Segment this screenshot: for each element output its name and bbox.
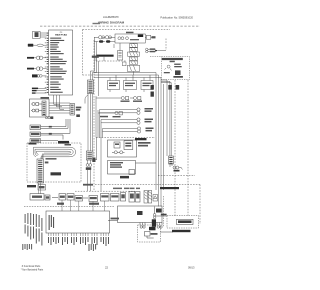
right connector K1: [169, 156, 174, 164]
dispenser door label: [51, 172, 62, 175]
dispenser door dashed line: [24, 206, 114, 208]
lower wire stub 1: [32, 88, 38, 90]
legend pin rows: [50, 38, 66, 93]
connector J3: [70, 104, 75, 116]
harness connector J2: [88, 80, 94, 94]
wire to ground block: [158, 50, 166, 52]
FF bus drop verticals: [96, 98, 103, 138]
door harness connector: [86, 151, 93, 160]
svg-text:WIRING DIAGRAM: WIRING DIAGRAM: [98, 21, 125, 25]
housing wire stub 2: [27, 68, 34, 70]
legend pin tick marks: [47, 33, 49, 93]
cabinet inner dashed wall: [93, 40, 95, 190]
water heater label: [151, 233, 158, 235]
cutoff switch label: [31, 139, 40, 141]
compressor plug wires row 1: [94, 36, 115, 42]
ice room label: [41, 97, 50, 99]
FF section title row 2: [110, 164, 121, 165]
freezer fan dashed box: [167, 216, 199, 229]
ice room box: [30, 99, 50, 117]
power cord plug: [28, 44, 34, 47]
svg-text:09/13: 09/13: [188, 266, 195, 270]
dispenser top hatched connector 1: [144, 191, 158, 204]
dashed drop right of dispenser: [163, 196, 165, 227]
FF section bottom label: [120, 176, 129, 179]
line filter body: [35, 32, 39, 37]
strip side text: [46, 158, 57, 160]
right bus corner turns under ground box: [161, 80, 171, 156]
wire label mid: [76, 114, 80, 117]
ice room bottom cluster blob: [50, 116, 53, 119]
grounding diagram box: [150, 57, 190, 80]
machine dashed line mini box: [123, 62, 127, 66]
connector pair 2 wires: [34, 68, 47, 70]
ground lug blob: [32, 74, 38, 77]
plug wires row 2: [94, 41, 115, 43]
lower stub wires: [36, 88, 47, 93]
freezer fan inner label: [178, 220, 192, 223]
svg-text:* Non-Illustrated Parts: * Non-Illustrated Parts: [21, 268, 44, 271]
grounding diagram title: [162, 58, 183, 60]
auger motor row: [30, 119, 68, 130]
right bus long verticals: [156, 73, 164, 207]
wires boxes to bus: [110, 75, 150, 92]
cutoff switch row: [30, 139, 58, 143]
freezer dashed divider right: [158, 175, 195, 177]
relay cluster labels: [150, 48, 156, 50]
FF thermistor 2: [134, 97, 137, 100]
freezer fan bottom label: [172, 230, 191, 232]
cabinet left dashed wall: [82, 30, 84, 76]
svg-text:Publication No. 5995591020: Publication No. 5995591020: [160, 15, 193, 19]
fold cut line: [40, 25, 200, 27]
svg-text:LGHB2869TF: LGHB2869TF: [103, 15, 119, 19]
power cord wire: [33, 44, 46, 46]
buzzer box with hat: [153, 195, 158, 202]
right dashed wall top segment: [165, 39, 167, 51]
ice maker labels: [115, 142, 151, 147]
door strip drop wires: [38, 183, 40, 194]
door box corner label: [29, 143, 37, 145]
air damper: [137, 118, 140, 121]
plug pair circles row 1: [99, 36, 102, 39]
wires filter to board: [40, 33, 46, 37]
door heater note: [27, 185, 36, 187]
ice room bottom cluster circles: [45, 116, 47, 118]
bottom row right label: [160, 187, 179, 189]
line filter box: [33, 31, 47, 38]
ice maker title label: [135, 138, 147, 140]
terminal board box: [145, 35, 153, 39]
machine compartment component box 1: [108, 75, 154, 92]
strip side text 2: [45, 162, 49, 164]
machine compartment dashed line: [96, 60, 126, 62]
right dashed wall x188: [187, 80, 189, 216]
bus wires legend-to-cabinet: [91, 37, 99, 96]
FF wall drop wires lower: [97, 138, 102, 192]
condenser fan wire: [96, 56, 104, 61]
main PCBA legend box: [49, 30, 73, 95]
door harness plug cluster: [86, 164, 89, 167]
ice maker box: [108, 140, 137, 157]
water valve label dark: [58, 141, 69, 144]
bus corner drop wires: [91, 37, 97, 80]
component box 2: [124, 81, 137, 90]
bus wire label: [92, 56, 99, 58]
plug dark pair row 2a: [99, 40, 103, 43]
plug dark pair row 2b: [106, 40, 110, 43]
FF light 2: [137, 127, 140, 130]
grounding diagram subtitle: [170, 61, 175, 63]
harness label above bottom dashed: [83, 184, 93, 186]
UI pin rotated labels: [48, 237, 109, 246]
cabinet bottom dashed left: [75, 190, 135, 192]
dispenser control box: [108, 206, 162, 228]
UI board box: [46, 211, 110, 233]
K1 lower cluster: [170, 164, 183, 170]
capacitor wires: [113, 43, 120, 51]
dispenser box inner label 2: [156, 209, 162, 213]
freezer fan inner box: [177, 219, 194, 224]
connector pair 2 circles: [36, 67, 40, 71]
grounding dark blob: [175, 70, 181, 75]
grounding bottom dark row: [173, 76, 183, 78]
door strip pins: [38, 160, 42, 182]
dispenser box inner label 1: [137, 211, 143, 215]
UI lower wire labels: [22, 244, 96, 251]
FF component labels: [100, 101, 154, 132]
right bus wire labels: [151, 85, 180, 97]
svg-text:MAIN PCBA: MAIN PCBA: [55, 34, 67, 37]
water tube heater dashed box: [138, 225, 161, 242]
wire label UI-dispenser: [111, 218, 120, 220]
run capacitor: [113, 43, 123, 60]
door harness verticals: [85, 94, 93, 152]
strain relief oval: [37, 44, 43, 46]
grounding text blob 2: [174, 66, 182, 67]
svg-text:# Functional Parts: # Functional Parts: [22, 265, 41, 268]
under-box label 2: [57, 203, 64, 205]
K1 cluster blob: [174, 170, 180, 172]
component labels row: [109, 83, 152, 87]
lower wire stub 3: [32, 92, 36, 93]
FF section title row 3: [110, 166, 122, 167]
right dashed wall x175: [174, 80, 176, 216]
left rotated wire labels: [25, 213, 43, 246]
ice water valve label: [31, 133, 40, 135]
labels above bottom row: [113, 188, 140, 190]
splice tick: [96, 159, 97, 161]
UI board pin stubs: [49, 233, 109, 236]
ground lug circles: [37, 75, 40, 78]
lower wire stub 2: [32, 90, 37, 91]
cut line tiny note: [93, 23, 101, 24]
connector pair 1 circles: [36, 56, 40, 60]
machine compartment drop wires: [98, 61, 100, 96]
stack stem wires: [133, 43, 135, 75]
freezer fan circles: [153, 207, 167, 219]
freezer fan wire label: [161, 214, 167, 216]
splice blob mid wall: [92, 158, 95, 163]
J2 pin marks: [88, 81, 92, 92]
wires row boxes to UI board: [62, 200, 105, 211]
compressor inner text: [130, 39, 139, 40]
cabinet dashed outline: [75, 30, 200, 225]
water heater small box: [145, 232, 174, 239]
under-box label: [89, 203, 99, 205]
door box right label: [65, 144, 72, 146]
FF light 1: [137, 108, 140, 111]
FF section title row 1: [110, 162, 123, 163]
compressor relay box: [115, 34, 145, 43]
UI board inner vertical text: [49, 215, 55, 230]
terminal board label: [152, 36, 156, 38]
condenser fan motor label: [96, 55, 113, 57]
K1 pin marks: [169, 157, 172, 164]
auger motor label: [31, 126, 40, 128]
ground lug wire: [42, 75, 46, 77]
diode arrow symbol: [155, 50, 158, 52]
door heater box: [38, 185, 46, 191]
relay cluster circles: [146, 48, 150, 53]
freezer door dashed box: [27, 143, 81, 182]
overload relay stack: [128, 43, 140, 75]
bottom row: door switch box 1: [30, 192, 140, 203]
cabinet bottom dashed right: [95, 184, 200, 186]
svg-text:22: 22: [105, 265, 109, 269]
FF fan: [115, 111, 118, 114]
door heater box pins: [39, 186, 45, 188]
component box 3: [141, 81, 153, 90]
valve wire blob: [49, 133, 52, 135]
compressor label above box: [126, 32, 134, 34]
right dashed wall outer: [199, 185, 201, 225]
connector J3 label row2: [76, 109, 81, 111]
connector J3 label: [76, 107, 82, 109]
fresh food dashed divider: [96, 137, 155, 139]
door switch labels: [32, 194, 139, 205]
FF thermistor 1: [96, 96, 141, 138]
J3 pins: [71, 105, 74, 114]
fresh food section box: [108, 161, 157, 175]
cabinet top dashed edge: [83, 29, 171, 31]
door harness connector pins: [87, 152, 92, 159]
harness drop wires: [88, 160, 91, 191]
grounding text blob 3: [164, 72, 170, 73]
compressor dark label: [138, 34, 143, 37]
legend pin numbers column: [45, 38, 46, 93]
door wire loops: [34, 147, 76, 159]
plug cluster blob: [86, 167, 91, 170]
cabinet mid dashed shelf: [83, 74, 95, 76]
ice room strip pins: [43, 102, 46, 115]
freezer connector dark blob: [152, 219, 156, 227]
grounding text blob 1: [174, 64, 181, 65]
housing wire stub 1: [27, 57, 34, 59]
wires ice room to J3: [49, 95, 70, 113]
door connector strip: [37, 159, 44, 183]
water heater dark blob: [149, 227, 156, 231]
connector pair 1 wires: [34, 57, 47, 59]
auger wire blob: [49, 126, 52, 128]
main bus horizontal wires: [94, 73, 171, 207]
ice water valve row: [30, 119, 70, 140]
